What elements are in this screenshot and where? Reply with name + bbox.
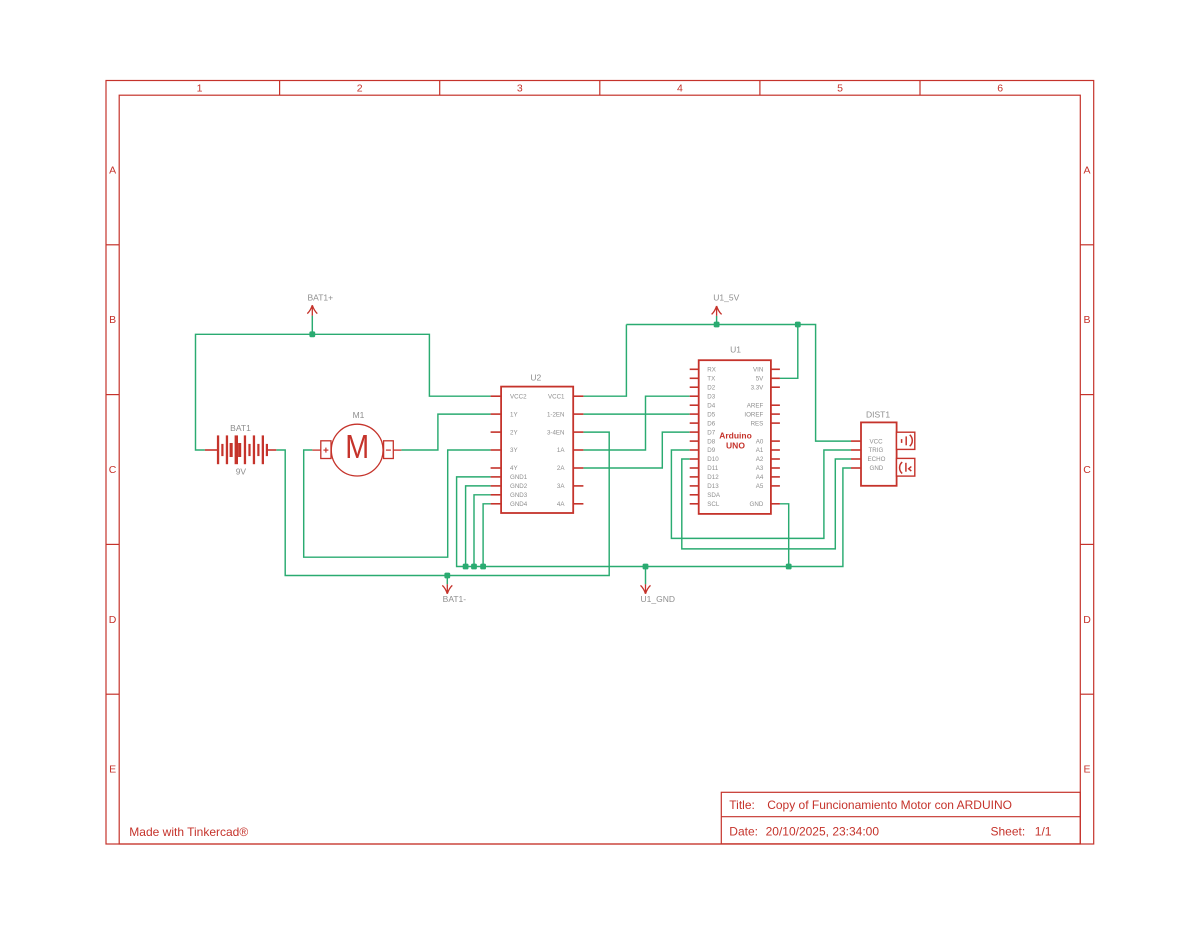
svg-text:VCC: VCC: [870, 438, 884, 445]
svg-text:1: 1: [197, 83, 203, 95]
svg-text:GND3: GND3: [510, 492, 528, 499]
battery BAT1: [205, 423, 276, 476]
svg-text:SDA: SDA: [707, 492, 721, 499]
sensor DIST1 (ultrasonic distance sensor): [851, 410, 915, 486]
svg-text:D9: D9: [707, 447, 715, 454]
wire U1_5V flag stub: [716, 316, 718, 325]
svg-text:D12: D12: [707, 474, 719, 481]
node U1 GND drop junction: [786, 564, 792, 570]
svg-text:6: 6: [997, 83, 1003, 95]
svg-text:2: 2: [357, 83, 363, 95]
wire motor minus to U2 1Y: [401, 414, 490, 450]
svg-text:U1: U1: [730, 345, 741, 355]
svg-text:20/10/2025, 23:34:00: 20/10/2025, 23:34:00: [766, 825, 880, 839]
svg-text:Arduino: Arduino: [719, 430, 752, 440]
svg-text:DIST1: DIST1: [866, 410, 890, 420]
frame row letters: [109, 164, 1091, 775]
node 5V T junction: [795, 322, 801, 328]
svg-text:U2: U2: [530, 372, 541, 382]
svg-text:9V: 9V: [236, 466, 247, 476]
svg-text:BAT1: BAT1: [230, 423, 251, 433]
node GND3 junction: [471, 564, 477, 570]
wire U2 2A to U1 D7: [583, 432, 689, 468]
svg-text:4A: 4A: [557, 501, 565, 508]
svg-text:E: E: [109, 764, 116, 776]
svg-text:TRIG: TRIG: [869, 447, 884, 454]
svg-text:RES: RES: [751, 420, 764, 427]
svg-text:BAT1+: BAT1+: [308, 292, 334, 302]
node GND4 junction: [480, 564, 486, 570]
svg-text:D5: D5: [707, 411, 715, 418]
svg-text:VCC1: VCC1: [548, 393, 565, 400]
svg-text:D3: D3: [707, 393, 715, 400]
svg-text:B: B: [1083, 314, 1090, 326]
svg-text:RX: RX: [707, 367, 716, 374]
svg-text:Sheet:: Sheet:: [991, 825, 1026, 839]
wire BAT1+ flag stub: [311, 316, 313, 335]
title text: [729, 798, 1052, 839]
svg-text:D6: D6: [707, 420, 715, 427]
svg-text:VCC2: VCC2: [510, 393, 527, 400]
transducer box bottom: [897, 458, 915, 476]
svg-text:TX: TX: [707, 376, 715, 383]
svg-text:2A: 2A: [557, 465, 565, 472]
svg-text:4: 4: [677, 83, 683, 95]
svg-text:D13: D13: [707, 483, 719, 490]
wire U2 1-2EN to U1 D5: [583, 413, 689, 415]
wire U1 D10 to DIST1 ECHO: [682, 459, 851, 549]
wire U2 1A to U1 D3: [583, 396, 689, 450]
svg-text:3-4EN: 3-4EN: [547, 429, 565, 436]
svg-text:GND1: GND1: [510, 474, 528, 481]
wire BAT1- net: battery minus to U2 3-4EN: [276, 432, 609, 575]
svg-text:ECHO: ECHO: [868, 456, 886, 463]
svg-text:A3: A3: [756, 465, 764, 472]
wire 5V rail horizontal and drop to DIST1 VCC: [626, 325, 851, 442]
node BAT1- junction: [444, 573, 450, 579]
svg-text:C: C: [109, 464, 117, 476]
svg-text:Title:: Title:: [729, 798, 755, 812]
svg-text:D: D: [1083, 614, 1091, 626]
wire BAT1- flag stub: [446, 576, 448, 585]
svg-text:D4: D4: [707, 402, 715, 409]
svg-text:A1: A1: [756, 447, 764, 454]
svg-text:VIN: VIN: [753, 367, 763, 374]
motor M1: [312, 410, 401, 476]
svg-text:GND: GND: [870, 465, 884, 472]
IC U2 (L293D): [491, 372, 584, 513]
svg-text:GND4: GND4: [510, 501, 528, 508]
wire U1 GND to GND bus: [780, 504, 789, 567]
title block: [721, 792, 1080, 844]
svg-text:D10: D10: [707, 456, 719, 463]
power flag BAT1+: [307, 305, 317, 315]
svg-text:1-2EN: 1-2EN: [547, 411, 565, 418]
svg-text:1A: 1A: [557, 447, 565, 454]
node U1_5V junction: [714, 322, 720, 328]
frame column numbers: [197, 83, 1004, 95]
svg-text:AREF: AREF: [747, 402, 764, 409]
svg-text:5V: 5V: [756, 376, 764, 383]
svg-text:C: C: [1083, 464, 1091, 476]
svg-text:D8: D8: [707, 438, 715, 445]
svg-text:GND: GND: [750, 501, 764, 508]
svg-text:A4: A4: [756, 474, 764, 481]
wire U2 GND3 drop: [474, 495, 491, 567]
svg-text:3.3V: 3.3V: [751, 384, 765, 391]
svg-text:1Y: 1Y: [510, 411, 518, 418]
svg-text:D11: D11: [707, 465, 718, 472]
svg-text:Date:: Date:: [729, 825, 758, 839]
svg-text:M1: M1: [353, 410, 365, 420]
svg-text:BAT1-: BAT1-: [443, 594, 467, 604]
svg-text:Copy of Funcionamiento Motor c: Copy of Funcionamiento Motor con ARDUINO: [767, 798, 1012, 812]
svg-text:3Y: 3Y: [510, 447, 518, 454]
wire motor plus to U2 3Y: [304, 450, 491, 557]
power flag U1_GND: [641, 584, 651, 594]
frame row ticks left: [106, 245, 119, 694]
svg-text:A0: A0: [756, 438, 764, 445]
node BAT1+ junction: [309, 331, 315, 337]
transducer box top: [897, 432, 915, 449]
power flag BAT1-: [442, 584, 452, 594]
svg-text:1/1: 1/1: [1035, 825, 1052, 839]
svg-text:4Y: 4Y: [510, 465, 518, 472]
svg-text:U1_GND: U1_GND: [641, 594, 675, 604]
svg-text:2Y: 2Y: [510, 429, 518, 436]
frame outer border: [106, 81, 1094, 845]
svg-text:D7: D7: [707, 429, 715, 436]
power flag U1_5V: [712, 306, 722, 316]
frame column ticks: [280, 81, 920, 96]
wire U2 GND4 drop: [483, 504, 491, 567]
svg-text:D: D: [109, 614, 117, 626]
svg-text:UNO: UNO: [726, 441, 745, 451]
svg-text:GND2: GND2: [510, 483, 528, 490]
svg-text:A: A: [109, 164, 116, 176]
svg-text:3: 3: [517, 83, 523, 95]
svg-text:Made with Tinkercad®: Made with Tinkercad®: [129, 825, 248, 839]
wire U1_GND flag stub: [645, 567, 647, 585]
frame row ticks right: [1080, 245, 1093, 694]
wire U1 5V pin riser: [780, 325, 798, 379]
svg-text:A5: A5: [756, 483, 764, 490]
svg-text:5: 5: [837, 83, 843, 95]
svg-text:SCL: SCL: [707, 501, 720, 508]
node GND2 junction: [463, 564, 469, 570]
svg-text:IOREF: IOREF: [744, 411, 763, 418]
svg-text:3A: 3A: [557, 483, 565, 490]
svg-text:U1_5V: U1_5V: [713, 293, 739, 303]
frame inner border: [119, 95, 1080, 844]
svg-text:B: B: [109, 314, 116, 326]
svg-text:A: A: [1083, 164, 1090, 176]
svg-text:M: M: [345, 428, 369, 465]
wire 5V rail to U2 VCC1: [583, 325, 626, 397]
wire GND bus: U2 GND1 to DIST1 GND: [457, 468, 851, 567]
wire U1 D9 to DIST1 TRIG: [671, 450, 851, 538]
wire BAT1+ net: battery plus to U2 VCC2: [196, 334, 491, 450]
IC U1 (Arduino UNO): [690, 345, 780, 514]
svg-text:D2: D2: [707, 384, 715, 391]
svg-text:A2: A2: [756, 456, 764, 463]
wire U2 GND2 drop: [466, 486, 491, 567]
node U1_GND junction: [643, 564, 649, 570]
svg-text:E: E: [1083, 764, 1090, 776]
